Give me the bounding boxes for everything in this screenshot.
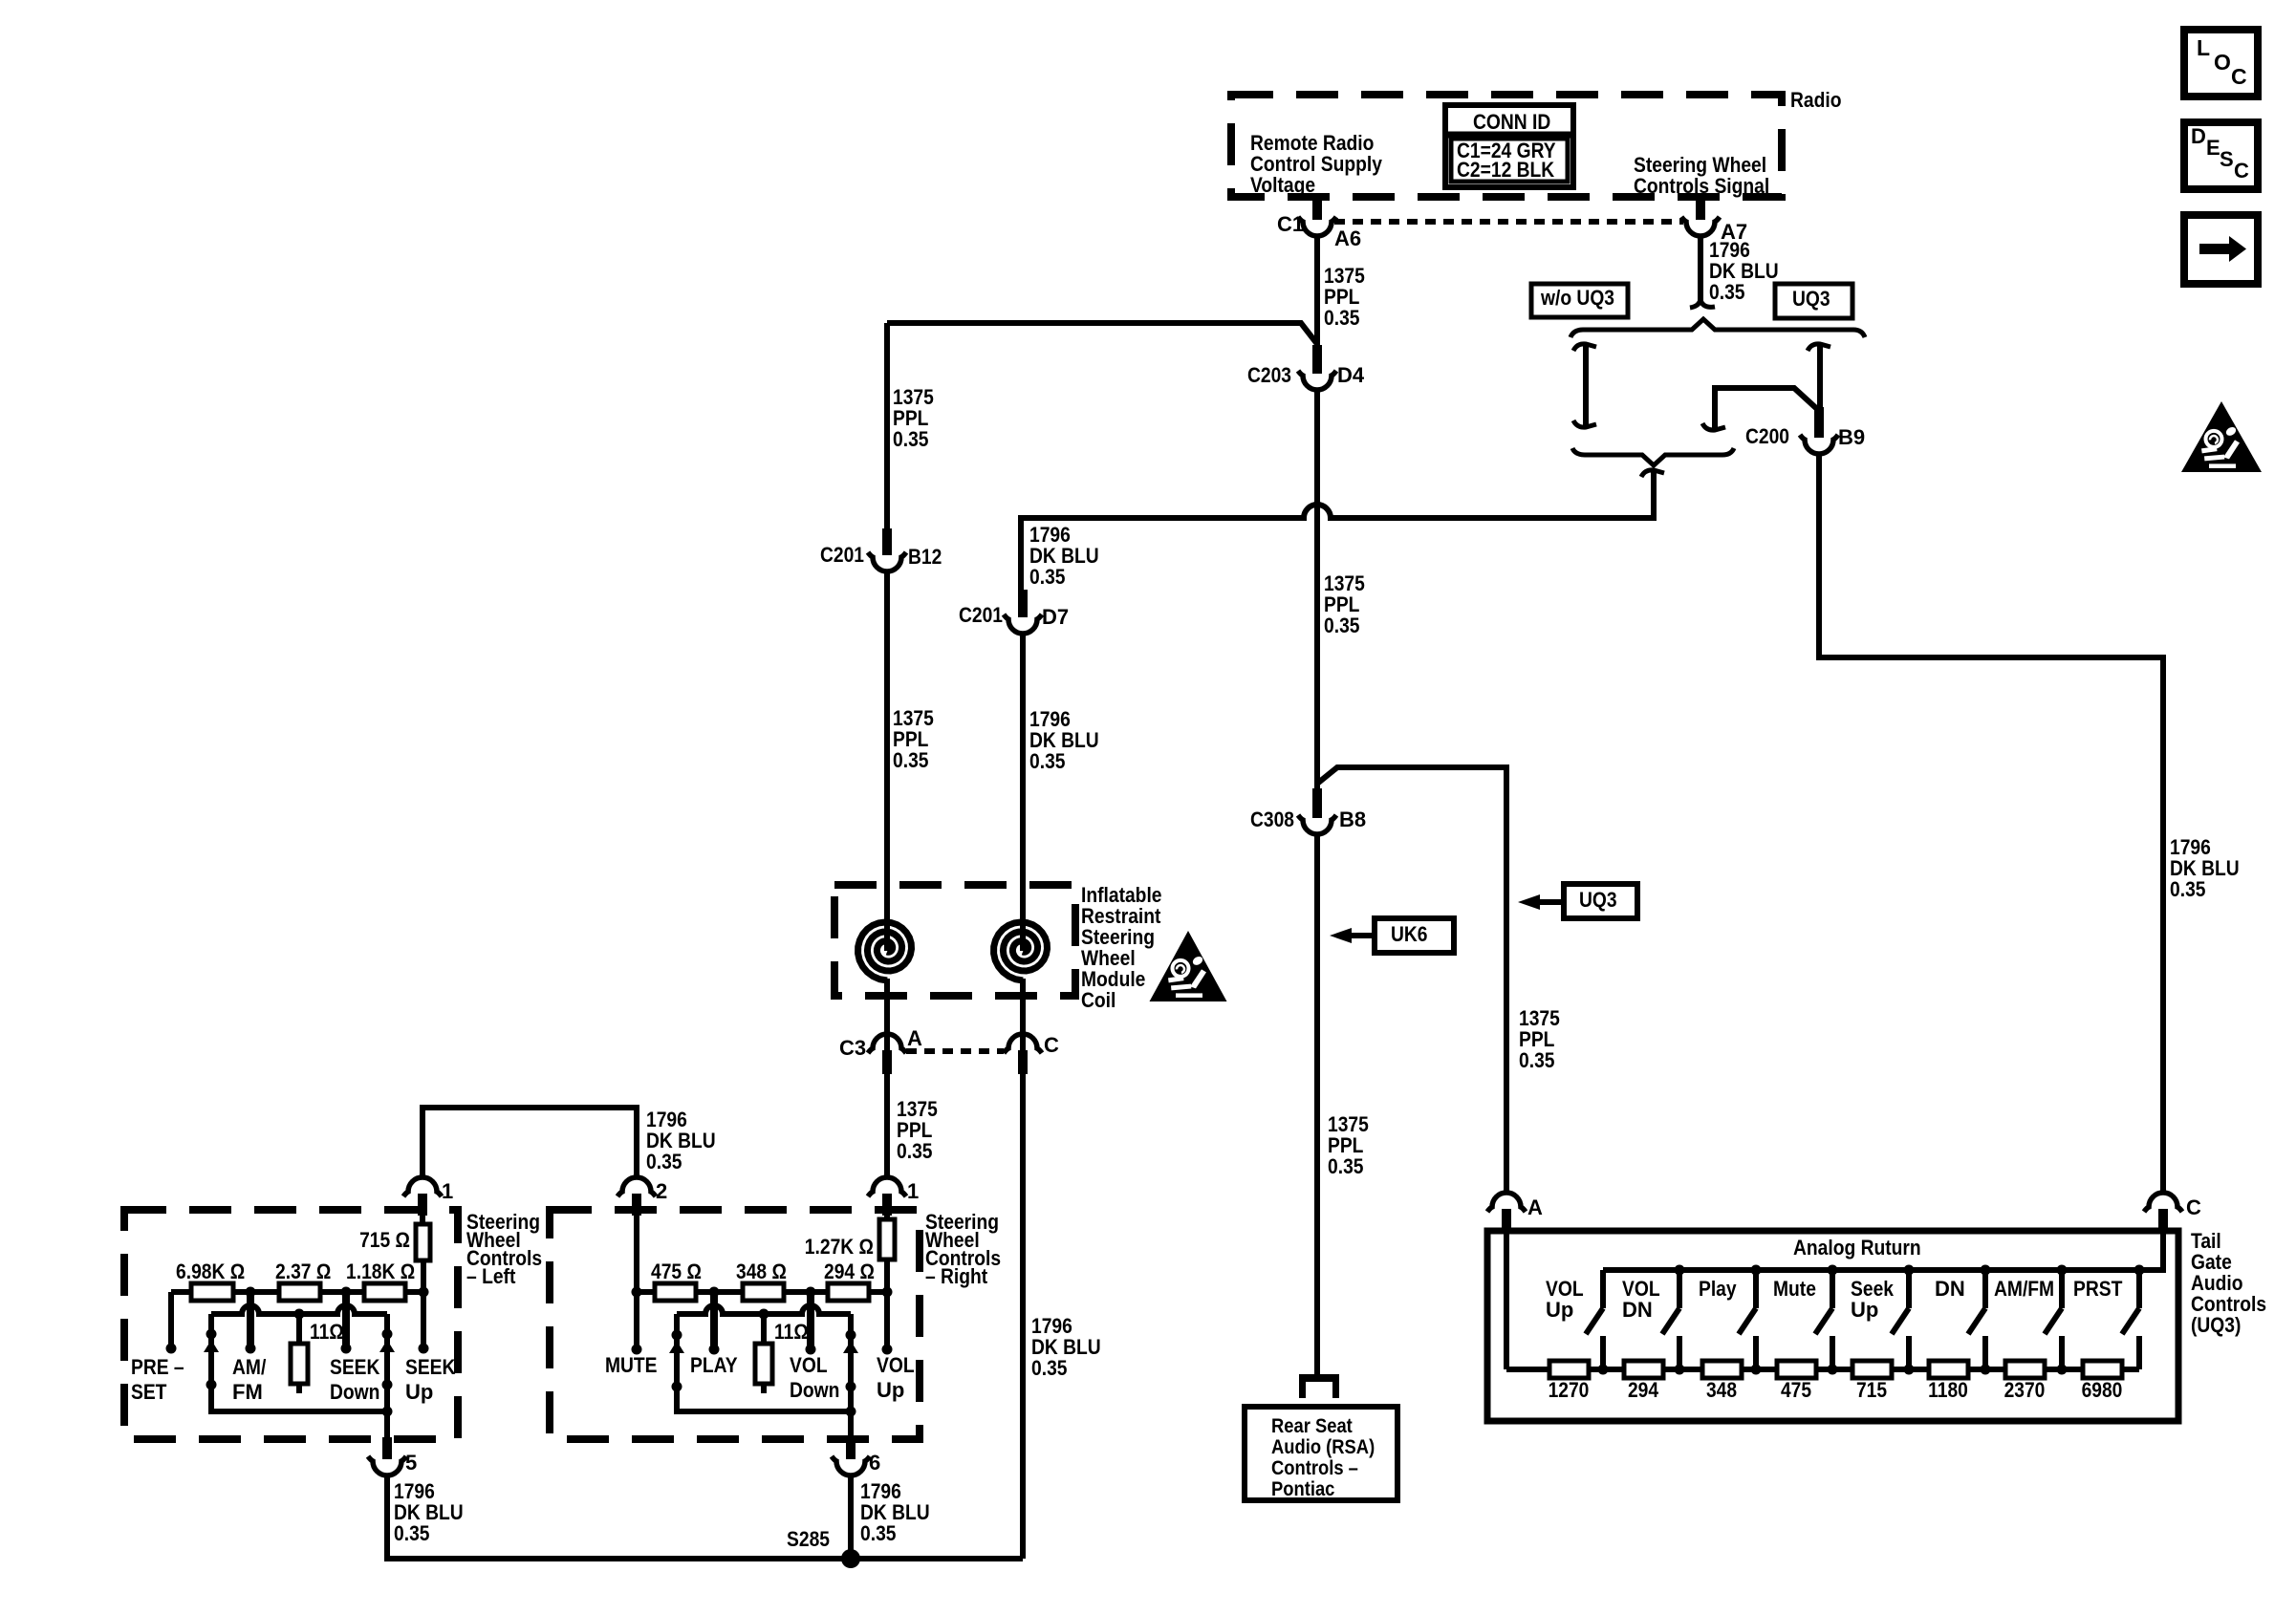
right box common right leg xyxy=(848,1314,854,1439)
connector C308 pin B8 xyxy=(1312,788,1322,818)
connector C201 pin B12 xyxy=(882,528,892,555)
junction dot rail-362 xyxy=(341,1287,352,1298)
svg-text:DN: DN xyxy=(1622,1298,1653,1322)
junction dot 11ohm xyxy=(294,1309,305,1320)
svg-text:S: S xyxy=(2220,147,2234,171)
svg-text:Down: Down xyxy=(790,1378,839,1402)
resistor 294 xyxy=(828,1283,869,1301)
tailgate analog return rail xyxy=(1603,1233,2163,1270)
svg-text:Up: Up xyxy=(877,1378,904,1402)
contact dot VOL-Up xyxy=(882,1345,893,1355)
junction dot resistor rail 1837 xyxy=(1751,1365,1762,1375)
coil left spiral xyxy=(884,885,890,949)
svg-text:UQ3: UQ3 xyxy=(1792,287,1830,311)
C200 bypass lower hook xyxy=(1702,423,1725,430)
junction dot return rail 2077 xyxy=(1981,1265,1991,1276)
svg-text:PLAY: PLAY xyxy=(690,1353,738,1377)
resistor 6.98K xyxy=(191,1283,233,1301)
CONN ID table box xyxy=(1445,105,1573,187)
wire D7 horizontal run with hop xyxy=(1021,505,1654,592)
svg-text:6.98K Ω: 6.98K Ω xyxy=(176,1260,245,1283)
svg-text:0.35: 0.35 xyxy=(1324,614,1360,637)
coil module dashed box xyxy=(834,885,1075,996)
svg-text:B12: B12 xyxy=(908,545,942,569)
connector C3 pin A xyxy=(882,1050,892,1074)
svg-text:715 Ω: 715 Ω xyxy=(359,1228,410,1252)
switch arrow 890 xyxy=(843,1341,858,1353)
svg-text:O: O xyxy=(2214,50,2231,75)
w/o UQ3 inline connector wire xyxy=(1583,346,1589,425)
wire MUTE drop xyxy=(634,1292,639,1349)
svg-text:Radio: Radio xyxy=(1790,88,1842,112)
connector C203 pin D4 xyxy=(1312,345,1322,374)
switch VOL Up (tailgate) xyxy=(1600,1270,1606,1308)
svg-text:MUTE: MUTE xyxy=(605,1353,658,1377)
svg-text:C308: C308 xyxy=(1250,807,1294,831)
junction dot return rail 1997 xyxy=(1904,1265,1915,1276)
connector right box pin 6 xyxy=(846,1437,856,1459)
option box w/o UQ3 xyxy=(1531,284,1628,317)
RSA connector terminal xyxy=(1299,1374,1339,1382)
wire B12 to coil xyxy=(884,571,890,951)
resistor 1270 (tailgate) xyxy=(1549,1361,1589,1378)
wire left box exit xyxy=(384,1439,390,1445)
svg-text:C3: C3 xyxy=(839,1036,866,1060)
svg-text:C1: C1 xyxy=(1277,212,1304,236)
connector left box pin 5 xyxy=(382,1437,392,1459)
contact dot MUTE xyxy=(632,1345,642,1355)
resistor 11 ohm (right box) xyxy=(761,1314,767,1344)
wire B12 drop xyxy=(884,323,890,531)
junction dot resistor rail 1757 xyxy=(1675,1365,1685,1375)
svg-text:294 Ω: 294 Ω xyxy=(824,1260,875,1283)
svg-text:E: E xyxy=(2206,136,2220,160)
svg-text:VOL: VOL xyxy=(877,1353,915,1377)
wire A to right box pin1 xyxy=(884,1074,890,1178)
right box common left leg xyxy=(677,1314,851,1411)
svg-text:5: 5 xyxy=(405,1451,417,1475)
connector tailgate pin A xyxy=(1502,1209,1511,1233)
switch AM/FM (tailgate) xyxy=(2059,1270,2065,1308)
connector right box pin 1 xyxy=(882,1194,892,1216)
steering wheel controls right dashed box xyxy=(550,1210,920,1439)
resistor 2370 (tailgate) xyxy=(2005,1361,2045,1378)
common dot 221-upper xyxy=(206,1329,217,1340)
svg-text:0.35: 0.35 xyxy=(2170,877,2206,901)
contact dot PRE-SET xyxy=(166,1344,177,1354)
resistor 715 (tailgate) xyxy=(1852,1361,1892,1378)
wire SEEK-Down drop xyxy=(342,1292,350,1348)
svg-text:Rear Seat: Rear Seat xyxy=(1271,1415,1353,1437)
junction dot rail-262 xyxy=(246,1287,256,1298)
svg-text:0.35: 0.35 xyxy=(860,1521,897,1545)
connector left box pin 1 xyxy=(418,1194,427,1216)
svg-text:11Ω: 11Ω xyxy=(774,1320,809,1344)
junction dot return rail 2238 xyxy=(2134,1265,2145,1276)
junction dot rail-747 xyxy=(709,1287,720,1298)
wire C to bottom rail xyxy=(1020,1074,1026,1559)
svg-text:715: 715 xyxy=(1856,1378,1887,1402)
svg-text:Up: Up xyxy=(405,1380,433,1404)
common dot 890-upper xyxy=(846,1330,856,1341)
wire PRE-SET drop xyxy=(168,1292,174,1348)
wire C200 bypass jog xyxy=(1715,388,1817,428)
junction dot return rail 1917 xyxy=(1828,1265,1838,1276)
tailgate resistor rail xyxy=(1506,1367,2139,1372)
svg-text:Up: Up xyxy=(1546,1298,1573,1322)
left box ladder rail xyxy=(171,1289,423,1295)
coil right spiral xyxy=(1020,885,1026,949)
svg-text:PRE –: PRE – xyxy=(131,1355,184,1379)
coil connector dashed line xyxy=(906,1048,1004,1054)
option arrow UK6 xyxy=(1330,928,1352,943)
svg-text:2: 2 xyxy=(656,1179,667,1203)
svg-text:Down: Down xyxy=(330,1380,379,1404)
svg-text:C200: C200 xyxy=(1745,424,1789,448)
wire AM/FM drop xyxy=(247,1292,254,1348)
svg-text:L: L xyxy=(2197,35,2210,60)
right box second rail with hops xyxy=(677,1305,851,1314)
svg-text:CONN ID: CONN ID xyxy=(1473,110,1550,134)
svg-text:SET: SET xyxy=(131,1380,167,1404)
brace split under A7 xyxy=(1570,319,1865,337)
svg-text:0.35: 0.35 xyxy=(646,1150,682,1174)
resistor 1180 (tailgate) xyxy=(1929,1361,1968,1378)
svg-text:475: 475 xyxy=(1781,1378,1811,1402)
junction dot return rail 1837 xyxy=(1751,1265,1762,1276)
svg-text:D7: D7 xyxy=(1042,605,1069,629)
svg-text:0.35: 0.35 xyxy=(897,1139,933,1163)
left box second rail with hops xyxy=(211,1305,387,1314)
connector right box pin 2 xyxy=(632,1194,641,1216)
svg-text:Audio (RSA): Audio (RSA) xyxy=(1271,1436,1375,1458)
svg-text:Controls –: Controls – xyxy=(1271,1457,1358,1479)
svg-text:D: D xyxy=(2191,124,2206,148)
switch VOL DN (tailgate) xyxy=(1677,1270,1682,1308)
wire VOL-Up drop xyxy=(884,1292,890,1349)
wire SEEK-Up drop xyxy=(421,1292,426,1348)
option box UQ3 (top) xyxy=(1775,284,1852,318)
svg-text:PRST: PRST xyxy=(2073,1277,2123,1301)
common dot 890-lower xyxy=(846,1382,856,1392)
wire VOL-Down drop xyxy=(807,1292,814,1349)
junction dot rail-928 xyxy=(882,1287,893,1298)
svg-text:– Right: – Right xyxy=(925,1264,988,1288)
svg-text:C2=12 BLK: C2=12 BLK xyxy=(1457,158,1554,182)
icon box right-arrow xyxy=(2184,215,2258,284)
wire pin2 to rail xyxy=(634,1216,639,1292)
svg-text:294: 294 xyxy=(1628,1378,1659,1402)
w/o UQ3 inline connector lower hook xyxy=(1573,420,1596,427)
junction dot rail-443 xyxy=(419,1287,429,1298)
svg-text:Pontiac: Pontiac xyxy=(1271,1478,1335,1500)
switch arrow 405 xyxy=(379,1340,395,1352)
svg-text:2.37 Ω: 2.37 Ω xyxy=(275,1260,331,1283)
svg-text:11Ω: 11Ω xyxy=(310,1320,344,1344)
airbag warning triangle right margin xyxy=(2181,401,2262,472)
junction dot resistor rail 2157 xyxy=(2057,1365,2068,1375)
svg-text:B9: B9 xyxy=(1838,425,1865,449)
svg-text:0.35: 0.35 xyxy=(893,748,929,772)
wire bottom run xyxy=(387,1475,1023,1559)
wire branch diagonal to UQ3 run xyxy=(1317,767,1506,1194)
svg-text:VOL: VOL xyxy=(790,1353,828,1377)
resistor 6980 (tailgate) xyxy=(2083,1361,2122,1378)
common dot 405-lower xyxy=(382,1380,393,1390)
svg-text:0.35: 0.35 xyxy=(1328,1154,1364,1178)
junction dot bottom rail 405 xyxy=(382,1407,393,1417)
svg-text:AM/: AM/ xyxy=(232,1355,266,1379)
wire tailgate A feed xyxy=(1504,1233,1509,1369)
UQ3 branch upper hook xyxy=(1808,344,1830,351)
splice junction S285 xyxy=(841,1549,860,1568)
svg-text:0.35: 0.35 xyxy=(1324,306,1360,330)
contact dot VOL-Down xyxy=(806,1345,816,1355)
common dot 708-upper xyxy=(672,1330,682,1341)
svg-text:w/o UQ3: w/o UQ3 xyxy=(1540,286,1614,310)
right box ladder rail xyxy=(637,1289,887,1295)
svg-text:1.18K Ω: 1.18K Ω xyxy=(346,1260,415,1283)
merge lower hook xyxy=(1641,470,1664,477)
svg-text:SEEK: SEEK xyxy=(330,1355,379,1379)
junction dot 11ohm right xyxy=(759,1309,769,1320)
junction dot resistor rail 1997 xyxy=(1904,1365,1915,1375)
resistor 475 (tailgate) xyxy=(1777,1361,1816,1378)
svg-text:C: C xyxy=(2186,1195,2201,1219)
svg-text:SEEK: SEEK xyxy=(405,1355,455,1379)
svg-text:348: 348 xyxy=(1706,1378,1737,1402)
svg-text:A: A xyxy=(1527,1195,1543,1219)
UQ3 branch wire to C200 xyxy=(1817,346,1823,411)
junction dot resistor rail 1917 xyxy=(1828,1365,1838,1375)
wire D7 to coil xyxy=(1020,633,1026,951)
svg-text:Mute: Mute xyxy=(1773,1277,1816,1301)
junction dot return rail 1757 xyxy=(1675,1265,1685,1276)
wire pin5 down xyxy=(384,1475,390,1559)
wire pin1 to 1.27K xyxy=(884,1216,890,1222)
svg-text:2370: 2370 xyxy=(2004,1378,2046,1402)
switch Mute (tailgate) xyxy=(1830,1270,1835,1308)
svg-text:1: 1 xyxy=(907,1179,919,1203)
wire jog left-pin1 to right-pin2 xyxy=(422,1108,637,1178)
left box common right leg xyxy=(384,1314,390,1439)
svg-text:C201: C201 xyxy=(820,543,864,567)
wire horizontal B12 jog to C203 xyxy=(887,323,1317,344)
svg-text:S285: S285 xyxy=(787,1527,830,1551)
option arrow UQ3 xyxy=(1518,894,1540,910)
wire C308 to RSA xyxy=(1314,833,1320,1376)
tail gate audio controls box xyxy=(1487,1231,2178,1421)
svg-text:UQ3: UQ3 xyxy=(1579,888,1617,912)
icon box LOC xyxy=(2184,30,2258,97)
svg-text:(UQ3): (UQ3) xyxy=(2191,1313,2241,1337)
airbag warning triangle at coil xyxy=(1150,931,1227,1001)
wire brace merge down to D7 run xyxy=(1651,472,1657,521)
svg-text:FM: FM xyxy=(232,1380,263,1404)
resistor 715 ohm xyxy=(416,1224,430,1260)
contact dot AM/FM xyxy=(246,1344,256,1354)
radio connector face dashed line xyxy=(1334,219,1683,225)
svg-text:C: C xyxy=(2231,64,2247,89)
svg-text:348 Ω: 348 Ω xyxy=(736,1260,787,1283)
resistor 1.27K xyxy=(879,1219,895,1260)
connector C3 pin C xyxy=(1018,1050,1028,1074)
svg-text:C: C xyxy=(2234,159,2249,183)
wire C203 to C308 xyxy=(1314,389,1320,792)
wire A6 to C203 xyxy=(1314,235,1320,349)
resistor 294 (tailgate) xyxy=(1624,1361,1663,1378)
left box common left leg xyxy=(211,1314,387,1411)
svg-text:Up: Up xyxy=(1851,1298,1878,1322)
resistor 348 xyxy=(743,1283,784,1301)
resistor 475 xyxy=(655,1283,696,1301)
resistor 348 (tailgate) xyxy=(1702,1361,1742,1378)
contact dot SEEK-Down xyxy=(341,1344,352,1354)
svg-text:Controls Signal: Controls Signal xyxy=(1634,174,1769,198)
svg-text:475 Ω: 475 Ω xyxy=(651,1260,702,1283)
svg-text:AM/FM: AM/FM xyxy=(1994,1277,2054,1301)
svg-text:1270: 1270 xyxy=(1549,1378,1590,1402)
component box Rear Seat Audio xyxy=(1245,1407,1397,1500)
svg-text:A6: A6 xyxy=(1334,226,1361,250)
svg-text:C201: C201 xyxy=(959,603,1003,627)
switch Seek Up (tailgate) xyxy=(1906,1270,1912,1308)
switch arrow 708 xyxy=(669,1341,684,1353)
connector C1 pin A7 xyxy=(1696,197,1705,220)
svg-text:0.35: 0.35 xyxy=(1519,1048,1555,1072)
svg-text:A: A xyxy=(907,1026,922,1050)
wire 1.27K to rail xyxy=(884,1260,890,1292)
resistor 1.18K xyxy=(364,1283,405,1301)
switch PRST (tailgate) xyxy=(2136,1270,2142,1308)
junction dot rail-848 xyxy=(806,1287,816,1298)
connector C201 pin D7 xyxy=(1018,590,1028,617)
connector C200 pin B9 xyxy=(1814,407,1824,438)
radio component dashed box xyxy=(1231,95,1782,197)
common dot 405-upper xyxy=(382,1329,393,1340)
svg-text:DN: DN xyxy=(1935,1277,1965,1301)
junction dot resistor rail 2077 xyxy=(1981,1365,1991,1375)
svg-text:0.35: 0.35 xyxy=(1031,1356,1068,1380)
svg-text:0.35: 0.35 xyxy=(1709,280,1745,304)
wire 715 to rail xyxy=(421,1260,426,1292)
icon box DESC xyxy=(2184,122,2258,189)
common dot 221-lower xyxy=(206,1380,217,1390)
svg-text:D4: D4 xyxy=(1337,363,1365,387)
w/o UQ3 inline connector upper hook xyxy=(1573,344,1596,351)
connector C1 pin A6 xyxy=(1312,197,1322,220)
switch DN (tailgate) xyxy=(1982,1270,1988,1308)
junction dot rail-666 xyxy=(632,1287,642,1298)
svg-text:Coil: Coil xyxy=(1081,988,1116,1012)
switch Play (tailgate) xyxy=(1753,1270,1759,1308)
wire A7 stub with curl xyxy=(1698,235,1703,302)
brace merge to w/o UQ3 path xyxy=(1572,448,1734,465)
svg-text:Analog Ruturn: Analog Ruturn xyxy=(1793,1236,1921,1260)
wire pin1 to 715 xyxy=(420,1216,425,1227)
svg-text:0.35: 0.35 xyxy=(394,1521,430,1545)
svg-text:0.35: 0.35 xyxy=(1029,749,1066,773)
resistor 11 ohm (left box) xyxy=(296,1314,302,1344)
common dot 708-lower xyxy=(672,1382,682,1392)
junction dot return rail 2157 xyxy=(2057,1265,2068,1276)
svg-text:– Left: – Left xyxy=(466,1264,516,1288)
svg-text:Play: Play xyxy=(1699,1277,1737,1301)
svg-text:Voltage: Voltage xyxy=(1250,173,1315,197)
wire PLAY drop xyxy=(710,1292,718,1349)
wire pin6 down to S285 xyxy=(848,1475,854,1559)
resistor 2.37 xyxy=(279,1283,320,1301)
steering wheel controls left dashed box xyxy=(124,1210,458,1439)
connector tailgate pin C xyxy=(2158,1209,2168,1233)
switch arrow 221 xyxy=(204,1340,219,1352)
svg-text:0.35: 0.35 xyxy=(1029,565,1066,589)
junction dot bottom rail 890 xyxy=(846,1407,856,1417)
contact dot PLAY xyxy=(709,1345,720,1355)
svg-text:1180: 1180 xyxy=(1928,1378,1968,1402)
svg-text:0.35: 0.35 xyxy=(893,427,929,451)
svg-text:UK6: UK6 xyxy=(1391,922,1428,946)
contact dot SEEK-Up xyxy=(419,1344,429,1354)
svg-text:6: 6 xyxy=(869,1451,880,1475)
svg-text:C: C xyxy=(1044,1033,1059,1057)
wire C200 B9 to tailgate C xyxy=(1819,453,2163,1194)
svg-text:6980: 6980 xyxy=(2082,1378,2123,1402)
svg-text:C203: C203 xyxy=(1247,363,1291,387)
junction dot resistor rail 1677 xyxy=(1598,1365,1609,1375)
svg-text:1: 1 xyxy=(442,1179,453,1203)
svg-text:1.27K Ω: 1.27K Ω xyxy=(805,1235,874,1259)
svg-text:B8: B8 xyxy=(1339,807,1366,831)
